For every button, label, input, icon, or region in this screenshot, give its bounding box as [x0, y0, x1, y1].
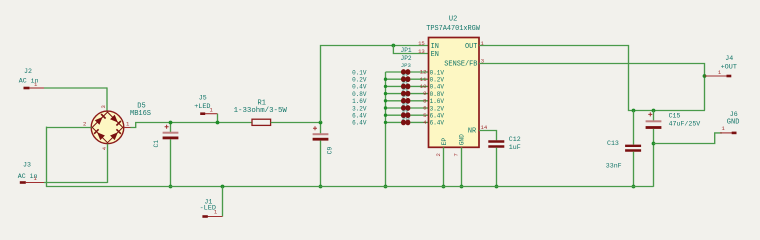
- svg-text:GND: GND: [727, 119, 740, 127]
- wire bridge pin1 jog: [124, 127, 131, 129]
- wire J3 to bridge pin4: [44, 182, 108, 184]
- diode D5a (left-top): [95, 117, 103, 125]
- svg-text:0.2V: 0.2V: [430, 77, 445, 84]
- svg-text:12: 12: [420, 69, 427, 76]
- wire OUT to output node: [479, 46, 705, 111]
- svg-text:2: 2: [83, 120, 86, 127]
- wire down to bridge pin 3: [106, 87, 108, 111]
- svg-text:0.8V: 0.8V: [352, 91, 367, 98]
- junction ground rail / ladder: [384, 185, 388, 189]
- svg-text:-LED: -LED: [200, 205, 216, 213]
- junction ground rail / C12: [495, 185, 499, 189]
- capacitor C15: [653, 111, 655, 122]
- wire down to J1: [222, 187, 224, 217]
- junction ground rail / C1: [169, 185, 173, 189]
- svg-text:C1: C1: [153, 140, 160, 148]
- junction top rail / C1: [169, 121, 173, 125]
- svg-text:IN: IN: [431, 43, 439, 51]
- svg-text:C9: C9: [327, 147, 334, 155]
- svg-text:3.2V: 3.2V: [352, 105, 367, 112]
- wire JP1 IN to EN: [393, 46, 428, 54]
- capacitor C9: [320, 123, 322, 135]
- svg-text:EN: EN: [431, 51, 439, 59]
- svg-text:6: 6: [423, 105, 426, 112]
- svg-text:1.6V: 1.6V: [430, 98, 445, 105]
- junction ground rail / J1: [221, 185, 225, 189]
- junction C15 lead / J6 branch: [652, 142, 656, 146]
- svg-text:13: 13: [418, 48, 425, 55]
- svg-text:MB16S: MB16S: [130, 110, 151, 118]
- svg-text:33nF: 33nF: [606, 163, 622, 170]
- svg-text:0.4V: 0.4V: [430, 84, 445, 91]
- junction ground rail / EP: [442, 185, 446, 189]
- junction top rail / J5: [216, 121, 220, 125]
- wire ground rail: [46, 186, 654, 188]
- svg-text:15: 15: [418, 40, 425, 47]
- junction out node / C15: [652, 109, 656, 113]
- wire R1 to C9 node: [271, 122, 321, 124]
- svg-text:JP7: JP7: [402, 96, 408, 100]
- svg-text:3: 3: [100, 105, 107, 108]
- junction out node / C13: [632, 109, 636, 113]
- svg-text:U2: U2: [449, 15, 457, 23]
- svg-text:0.8V: 0.8V: [430, 91, 445, 98]
- junction ground rail / C9: [319, 185, 323, 189]
- wire bridge pin2 left: [47, 127, 92, 129]
- capacitor C1: [170, 123, 172, 133]
- svg-text:SENSE/FB: SENSE/FB: [444, 61, 477, 69]
- diode D5c (bottom-left): [97, 132, 105, 140]
- junction J4 tap: [703, 74, 707, 78]
- svg-text:J6: J6: [730, 111, 738, 118]
- svg-text:8: 8: [423, 97, 426, 104]
- wire J2 to bridge pin3: [44, 87, 107, 89]
- svg-text:J2: J2: [24, 68, 32, 75]
- bridge rectifier D5: [91, 111, 124, 144]
- svg-text:JP5: JP5: [402, 82, 408, 86]
- svg-text:10: 10: [420, 83, 427, 90]
- svg-text:JP4: JP4: [402, 75, 408, 79]
- svg-text:14: 14: [481, 124, 488, 131]
- svg-text:0.1V: 0.1V: [430, 69, 445, 76]
- svg-text:C15: C15: [669, 112, 681, 119]
- svg-text:1-33ohm/3-5W: 1-33ohm/3-5W: [234, 107, 288, 115]
- ladder common wire: [385, 72, 387, 187]
- junction ground rail / GND: [460, 185, 464, 189]
- svg-text:JP1: JP1: [401, 47, 412, 54]
- svg-text:9: 9: [423, 90, 426, 97]
- svg-text:TPS7A4701xRGW: TPS7A4701xRGW: [426, 25, 481, 33]
- capacitor C12: [488, 140, 504, 142]
- wire SENSE/FB to output node: [479, 64, 705, 111]
- wire NR pin to C12: [479, 131, 497, 141]
- capacitor C13: [633, 111, 635, 145]
- svg-text:JP9: JP9: [402, 111, 408, 115]
- wire C9 node up to IN pin: [321, 46, 429, 123]
- svg-text:JP3: JP3: [401, 62, 411, 69]
- wire pin1 to R1 (top rail left): [131, 123, 253, 128]
- svg-text:6.4V: 6.4V: [352, 120, 367, 127]
- svg-text:C12: C12: [509, 136, 521, 143]
- svg-text:GND: GND: [459, 134, 466, 145]
- svg-text:0.1V: 0.1V: [352, 69, 367, 76]
- svg-text:6.4V: 6.4V: [430, 113, 445, 120]
- svg-text:JP8: JP8: [402, 103, 408, 107]
- svg-text:5: 5: [423, 112, 426, 119]
- svg-text:JP6: JP6: [402, 89, 408, 93]
- svg-text:1.6V: 1.6V: [352, 98, 367, 105]
- connector J6: [720, 132, 732, 134]
- svg-text:J3: J3: [23, 161, 31, 168]
- svg-text:JP2: JP2: [401, 55, 412, 62]
- svg-text:2: 2: [435, 153, 442, 156]
- diode D5b (top-right): [110, 115, 118, 123]
- svg-text:0.2V: 0.2V: [352, 77, 367, 84]
- junction ground rail / C13: [632, 185, 636, 189]
- wire EP pin to ground rail: [443, 147, 445, 186]
- svg-text:1uF: 1uF: [509, 144, 521, 151]
- junction top rail / C9 / IN riser: [319, 121, 323, 125]
- svg-text:NR: NR: [468, 128, 476, 136]
- svg-text:C13: C13: [607, 140, 619, 147]
- svg-text:EP: EP: [441, 138, 448, 146]
- svg-text:0.4V: 0.4V: [352, 84, 367, 91]
- svg-text:11: 11: [420, 76, 427, 83]
- svg-text:6.4V: 6.4V: [352, 113, 367, 120]
- wire J5 to rail: [217, 114, 219, 123]
- svg-text:J5: J5: [199, 94, 207, 101]
- wire to J6: [654, 133, 723, 144]
- svg-text:+OUT: +OUT: [721, 63, 737, 71]
- svg-text:J4: J4: [725, 55, 733, 62]
- wire GND pin to ground rail: [461, 147, 463, 186]
- svg-text:OUT: OUT: [465, 43, 477, 51]
- svg-text:3.2V: 3.2V: [430, 105, 445, 112]
- junction IN / EN jumper: [392, 44, 396, 48]
- diode D5d (bottom-right): [110, 132, 118, 140]
- svg-text:+LED: +LED: [194, 103, 210, 111]
- svg-text:JP10: JP10: [402, 118, 410, 122]
- wire bridge pin4 down to J3 net: [107, 144, 109, 183]
- svg-text:47uF/25V: 47uF/25V: [669, 120, 701, 127]
- svg-text:7: 7: [453, 153, 460, 156]
- svg-text:6.4V: 6.4V: [430, 120, 445, 127]
- wire vertical to J3/ground: [46, 127, 48, 187]
